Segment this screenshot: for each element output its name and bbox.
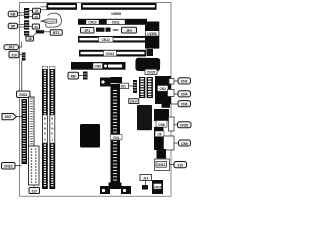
svg-text:1985: 1985 (112, 28, 119, 32)
header col E (139, 77, 145, 98)
wire JB3 to B4 (25, 35, 27, 38)
wire J8 to F (129, 85, 134, 87)
flag CN7 (2, 114, 17, 120)
svg-text:N: N (44, 127, 46, 131)
ladder foot (109, 183, 122, 189)
svg-text:JP2: JP2 (126, 29, 132, 33)
label R6 (174, 162, 187, 168)
keyboard DIN blob (135, 58, 160, 71)
CPU (80, 124, 100, 148)
slot label window (111, 135, 123, 140)
connector L1 (KB) (8, 11, 17, 16)
port box P2 (155, 159, 170, 171)
svg-text:CN4: CN4 (181, 93, 188, 97)
port tab G1 (169, 79, 174, 85)
svg-text:CN17: CN17 (130, 100, 138, 104)
svg-text:J1: J1 (35, 9, 39, 13)
jumper B4 (26, 36, 34, 41)
svg-text:CN15: CN15 (147, 71, 155, 75)
label CN15 (145, 69, 157, 74)
SIMM slot B (49, 66, 55, 189)
svg-text:CN11: CN11 (19, 93, 27, 97)
label CN17 (129, 99, 139, 104)
wire N down (145, 181, 147, 186)
slot bar B (81, 3, 157, 10)
jumper label JP2 (122, 27, 137, 33)
connector L2 (J2) (8, 23, 17, 28)
jumper JB1 (24, 8, 29, 19)
label KB2 (68, 72, 79, 79)
wire down to CN11 (21, 61, 23, 92)
svg-text:U1586: U1586 (147, 32, 157, 36)
svg-text:CN8: CN8 (158, 123, 165, 127)
wire B1 right (41, 9, 47, 11)
wire L2-JB2 (18, 24, 25, 26)
wire R4 (174, 124, 178, 126)
wire BT to label (44, 31, 50, 33)
header col F (147, 77, 153, 98)
svg-text:J17: J17 (32, 189, 38, 193)
svg-text:CN11: CN11 (112, 20, 120, 24)
wire down to L3 (19, 42, 22, 48)
jumper row JP1 (81, 28, 95, 34)
SIMM slot A (42, 66, 48, 189)
strip below (157, 149, 167, 159)
jumper JB2 (24, 20, 29, 29)
header col C (22, 99, 28, 164)
svg-text:CN6: CN6 (181, 103, 188, 107)
svg-text:CN16: CN16 (154, 185, 162, 189)
wire R3 (170, 103, 178, 105)
wire J10 (19, 54, 22, 56)
label BT1 (50, 30, 62, 36)
svg-text:JP1: JP1 (84, 29, 90, 33)
label R3 (178, 101, 191, 107)
connector box1 (100, 78, 111, 87)
svg-text:CN10: CN10 (4, 165, 13, 169)
jumper B1 (33, 8, 41, 13)
wire CN7 (17, 116, 22, 118)
svg-text:U6: U6 (157, 133, 161, 137)
block G (155, 76, 171, 104)
port box P1 (164, 136, 175, 150)
wire B1 left (29, 10, 32, 12)
label R4 (178, 122, 192, 128)
label J10 left (9, 51, 19, 58)
svg-text:J14: J14 (143, 176, 149, 180)
wire R1 (174, 80, 178, 82)
chip J (137, 105, 152, 130)
port tab P0 (169, 117, 175, 131)
svg-text:CN5: CN5 (95, 65, 102, 69)
svg-text:J4: J4 (34, 25, 38, 29)
wire R2 (174, 93, 178, 95)
jumper F (133, 80, 137, 93)
svg-text:J3: J3 (34, 15, 38, 19)
block H (162, 100, 171, 108)
slot row CN5 (71, 62, 126, 70)
wire B3 left (29, 25, 32, 27)
svg-text:CN9: CN9 (181, 142, 188, 146)
wire L1-JB1 (18, 12, 25, 14)
board outline (20, 3, 172, 197)
slot row CN12 (78, 36, 147, 43)
port tab G2 (168, 90, 175, 97)
battery body BT (36, 30, 44, 33)
svg-text:KB: KB (10, 13, 15, 17)
jumper block row3b (106, 28, 111, 32)
wire R6 (170, 164, 175, 166)
jumper B2 (33, 14, 40, 19)
header col D (29, 97, 35, 146)
jumper JB3 (24, 31, 29, 36)
jumper B3 (32, 24, 39, 29)
svg-text:BT1: BT1 (53, 31, 59, 35)
svg-text:CN13: CN13 (106, 52, 114, 56)
wire L7 (15, 165, 22, 167)
wire B2 left (29, 15, 32, 17)
svg-text:J81: J81 (121, 85, 127, 89)
label R1 (178, 78, 191, 84)
label CN11 (17, 91, 31, 98)
jumper block row3a (96, 28, 105, 32)
svg-text:SP: SP (11, 25, 16, 29)
slot row CN10 (78, 19, 147, 25)
label N (J14) (140, 175, 152, 181)
connector L3 (4, 45, 19, 50)
label R5 (179, 140, 191, 146)
connector box2 (111, 77, 123, 83)
svg-text:CN7: CN7 (5, 115, 12, 119)
svg-text:N: N (51, 127, 53, 131)
svg-text:CN3: CN3 (181, 80, 188, 84)
wire R5 (174, 142, 179, 144)
wire B1 up-right (41, 6, 47, 8)
slot bar A (47, 3, 78, 10)
label L7 (2, 163, 16, 170)
chip U15 (145, 22, 159, 49)
svg-text:KB: KB (71, 75, 76, 79)
svg-text:CN20: CN20 (180, 124, 188, 128)
jumper J10 block (22, 53, 26, 61)
svg-text:JP3: JP3 (8, 46, 14, 50)
slot row CN13 (79, 50, 146, 57)
svg-text:CN10: CN10 (88, 21, 96, 25)
wire KB2 (79, 75, 84, 77)
svg-text:CN1: CN1 (113, 136, 120, 140)
svg-text:19858: 19858 (111, 12, 121, 16)
pin block E (dotted) (29, 146, 40, 185)
block M (154, 109, 169, 150)
label J8 (118, 83, 129, 88)
label R2 (178, 91, 191, 97)
svg-text:J10: J10 (11, 53, 17, 57)
svg-text:J10: J10 (178, 163, 184, 167)
wire BT down-left (33, 33, 36, 36)
ladder foot right pad (121, 186, 131, 194)
svg-text:CN12: CN12 (102, 38, 110, 42)
svg-text:J8: J8 (28, 37, 32, 41)
label J1 bottom (29, 185, 40, 194)
jumper KB2 block (83, 72, 88, 80)
block CN16 (152, 180, 163, 194)
svg-text:CN2: CN2 (160, 87, 167, 91)
crystal box (147, 49, 154, 56)
jumper N block (142, 185, 148, 190)
central slot ladder (111, 84, 123, 189)
svg-text:CN14: CN14 (157, 163, 165, 167)
ladder foot left pad (100, 186, 110, 194)
battery blob (41, 13, 61, 27)
